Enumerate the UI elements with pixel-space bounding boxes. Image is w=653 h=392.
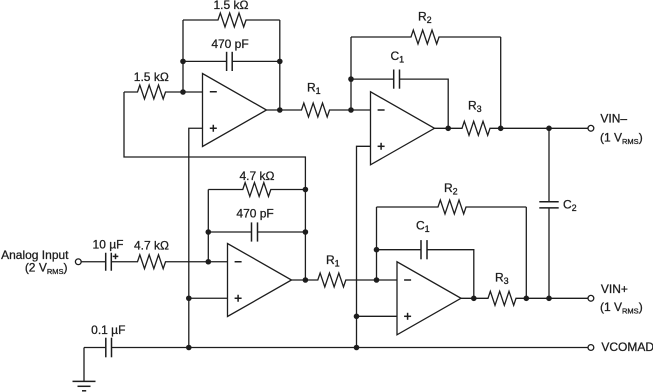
svg-text:R3: R3 — [468, 98, 482, 114]
op-amp C minus sign — [235, 261, 242, 263]
ground symbol — [73, 380, 96, 382]
terminal VIN- — [588, 125, 594, 131]
node: 470pF left junction — [206, 229, 212, 235]
terminal analog input — [75, 259, 81, 265]
svg-text:VCOMAD: VCOMAD — [601, 340, 653, 354]
op-amp B minus sign — [378, 109, 385, 111]
node: inverting input junction A — [180, 89, 186, 95]
node: R3/R2 junction bottom — [524, 296, 530, 302]
svg-text:R1: R1 — [307, 81, 321, 97]
op-amp D minus sign — [404, 279, 411, 281]
resistor 1.5 kOhm feedback (top op-amp) — [183, 13, 280, 27]
node: cap left junction — [180, 59, 186, 65]
resistor R2 (bottom) — [377, 200, 527, 214]
wire ground drop — [83, 348, 85, 382]
svg-text:C2: C2 — [563, 198, 577, 214]
node: output junction A — [277, 107, 283, 113]
svg-text:470 pF: 470 pF — [236, 207, 273, 221]
resistor R2 (top) — [351, 30, 501, 44]
svg-text:C1: C1 — [391, 49, 405, 65]
op-amp D (bottom right) — [397, 262, 461, 335]
resistor 1.5 kOhm input (top op-amp) — [124, 85, 203, 99]
wire R2 bottom right vertical — [525, 207, 527, 298]
capacitor C2 — [548, 128, 550, 298]
node: common rail at VCOM line left — [186, 345, 192, 351]
node: C2 bottom junction — [546, 296, 552, 302]
wire loop: A input resistor to lower op-amp output — [124, 92, 305, 280]
wire feedback left vertical — [182, 20, 184, 92]
svg-text:VIN+: VIN+ — [601, 282, 628, 296]
capacitor C1 (top) — [351, 79, 448, 128]
op-amp A minus sign — [210, 91, 217, 93]
node: op-amp B inverting node — [348, 107, 354, 113]
resistor 4.7 kOhm input — [111, 255, 227, 269]
terminal VCOMAD — [588, 345, 594, 351]
resistor R1 (top) — [267, 103, 371, 117]
svg-text:(1 VRMS): (1 VRMS) — [600, 300, 643, 316]
svg-text:10 µF: 10 µF — [93, 238, 124, 252]
node: op-amp B output junction — [445, 126, 451, 132]
node: common rail at D plus — [354, 314, 360, 320]
capacitor 470 pF (lower op-amp feedback) — [208, 231, 305, 233]
wire feedback left vertical (lower) — [207, 190, 209, 262]
svg-text:4.7 kΩ: 4.7 kΩ — [134, 239, 169, 253]
capacitor 0.1 uF — [84, 347, 588, 349]
node: 4.7k feedback right junction — [303, 187, 309, 193]
node: R3/R2 junction top — [498, 126, 504, 132]
node: op-amp C output junction — [303, 277, 309, 283]
resistor R3 (bottom) with output line — [461, 291, 588, 305]
op-amp B (top right) — [371, 92, 435, 165]
capacitor 10 uF input — [81, 261, 106, 263]
svg-text:(2 VRMS): (2 VRMS) — [25, 261, 68, 277]
node: common rail at C plus — [186, 295, 192, 301]
svg-text:4.7 kΩ: 4.7 kΩ — [240, 169, 275, 183]
svg-text:R2: R2 — [444, 181, 458, 197]
wire op-amp A noninverting input to common rail — [189, 128, 203, 347]
svg-text:R3: R3 — [495, 270, 509, 286]
node: C2 top junction — [546, 126, 552, 132]
svg-text:VIN–: VIN– — [600, 112, 627, 126]
wire op-amp D noninverting input stub — [357, 315, 398, 317]
svg-text:R1: R1 — [326, 253, 340, 269]
wire feedback right vertical — [279, 20, 281, 110]
node: lower op-amp inverting junction — [206, 259, 212, 265]
svg-text:C1: C1 — [416, 219, 430, 235]
svg-text:1.5 kΩ: 1.5 kΩ — [134, 70, 169, 84]
resistor 4.7 kOhm feedback (lower left op-amp) — [208, 183, 305, 197]
wire R2 bottom left vertical — [376, 207, 378, 280]
capacitor 470 pF (top op-amp feedback) — [183, 60, 280, 62]
node: common rail at VCOM line right — [354, 345, 360, 351]
svg-text:470 pF: 470 pF — [211, 37, 248, 51]
resistor R3 (top) with output line — [435, 121, 589, 135]
node: C1 bottom left junction — [374, 247, 380, 253]
svg-text:1.5 kΩ: 1.5 kΩ — [214, 0, 249, 12]
node: C1 left junction — [348, 76, 354, 82]
terminal VIN+ — [588, 295, 594, 301]
resistor R1 (bottom) — [292, 273, 398, 287]
node: op-amp D output junction — [471, 296, 477, 302]
op-amp A plus sign — [210, 127, 217, 129]
polarity plus sign — [113, 255, 119, 257]
op-amp A (top left) — [203, 74, 267, 147]
wire op-amp C noninverting input stub — [189, 297, 228, 299]
op-amp C plus sign — [235, 297, 242, 299]
capacitor C1 (bottom) — [377, 250, 474, 299]
op-amp B plus sign — [378, 145, 385, 147]
node: cap right junction — [277, 59, 283, 65]
op-amp D plus sign — [404, 315, 411, 317]
wire op-amp B noninverting input to common rail — [357, 146, 371, 347]
svg-text:R2: R2 — [418, 9, 432, 25]
wire R2 right vertical — [500, 37, 502, 128]
svg-text:(1 VRMS): (1 VRMS) — [600, 131, 643, 147]
op-amp C (lower left) — [228, 244, 292, 317]
svg-text:0.1 µF: 0.1 µF — [91, 323, 125, 337]
node: 470pF right junction — [303, 229, 309, 235]
wire R2 left vertical — [350, 37, 352, 110]
node: op-amp D inverting node — [374, 277, 380, 283]
